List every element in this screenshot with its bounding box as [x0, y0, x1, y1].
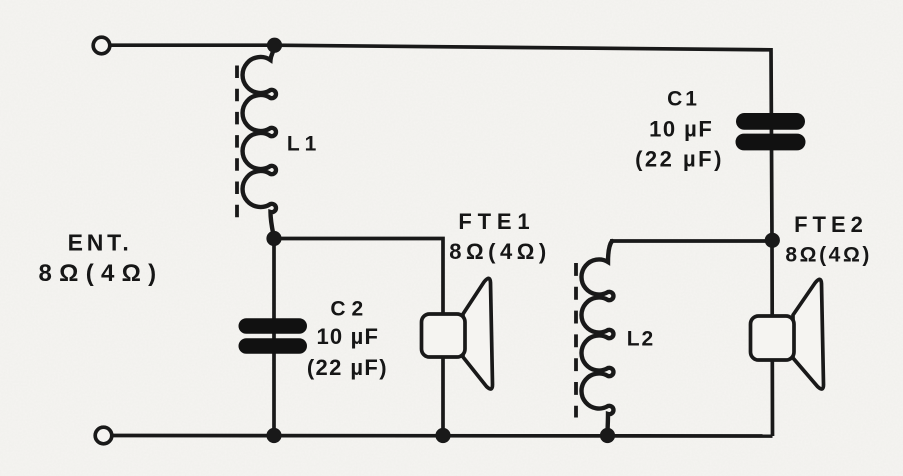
- svg-text:ENT.: ENT.: [68, 230, 133, 256]
- wire: L2 top to right rail: [610, 239, 772, 243]
- inductor L1 coil: [243, 45, 276, 238]
- speaker FTE1 cone: [463, 278, 493, 389]
- svg-text:L2: L2: [627, 328, 656, 351]
- svg-text:(22 µF): (22 µF): [635, 147, 724, 172]
- svg-text:FTE2: FTE2: [794, 212, 868, 237]
- speaker FTE1 body: [422, 314, 466, 357]
- wire: middle node A to FTE1 branch: [274, 239, 443, 436]
- label L1: [287, 133, 322, 156]
- inductor L2 coil: [581, 241, 613, 435]
- svg-text:C1: C1: [667, 88, 700, 111]
- inductor L2 dashed core: [574, 263, 578, 418]
- inductor L1 dashed core: [235, 66, 239, 219]
- svg-text:(22 µF): (22 µF): [307, 355, 388, 380]
- node D junction dot (C2 bottom): [266, 428, 281, 443]
- wire: C2 branch vertical: [272, 239, 276, 436]
- wire: top rail from input terminal to top-right corner: [110, 45, 771, 50]
- capacitor C2 plates: [239, 318, 308, 354]
- svg-text:8Ω(4Ω): 8Ω(4Ω): [39, 260, 164, 287]
- node A junction dot (top rail / L1): [267, 38, 282, 53]
- wire: bottom rail from input terminal to bottom-right corner: [111, 434, 773, 438]
- svg-text:8Ω(4Ω): 8Ω(4Ω): [449, 239, 550, 264]
- node E junction dot (FTE1 bottom): [435, 428, 450, 443]
- svg-text:L1: L1: [287, 133, 322, 156]
- svg-text:FTE1: FTE1: [458, 209, 535, 234]
- label C2 value: [307, 298, 388, 381]
- capacitor C1 plates: [736, 113, 806, 150]
- label ENT. input: [39, 230, 164, 288]
- label L2: [627, 328, 656, 351]
- label FTE1: [449, 209, 550, 264]
- svg-text:8Ω(4Ω): 8Ω(4Ω): [785, 244, 872, 267]
- label FTE2: [785, 212, 872, 267]
- label C1 value: [635, 88, 724, 172]
- node F junction dot (L2 bottom): [600, 428, 615, 443]
- svg-text:10 µF: 10 µF: [649, 117, 713, 142]
- wire: right vertical rail (through C1 and FTE2): [771, 48, 773, 436]
- speaker FTE2 body: [751, 316, 795, 360]
- input terminal top: [93, 37, 110, 54]
- node C junction dot (C1 / L2 / FTE2): [765, 233, 780, 248]
- input terminal bottom: [95, 427, 112, 444]
- svg-text:C2: C2: [330, 298, 369, 321]
- speaker FTE2 cone: [793, 279, 824, 389]
- svg-text:10 µF: 10 µF: [316, 324, 379, 349]
- node B junction dot (L1 / C2 / FTE1): [266, 231, 281, 246]
